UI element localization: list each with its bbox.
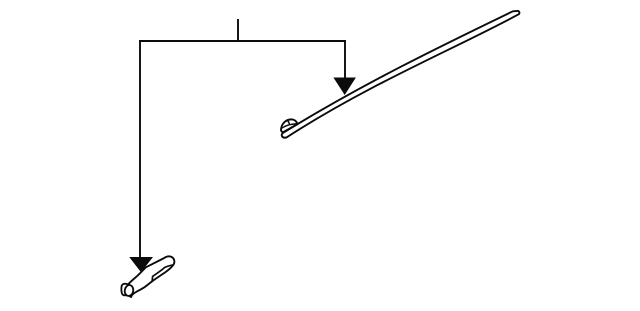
end clip fastener head front face <box>124 284 134 296</box>
molding end cap clip <box>281 119 298 132</box>
molding strip <box>282 11 520 138</box>
left leader wire <box>139 40 141 258</box>
left arrowhead <box>129 257 153 272</box>
right arrowhead <box>333 78 356 96</box>
callout stub wire <box>237 19 239 41</box>
right leader wire <box>344 40 346 79</box>
end clip bevel edge line <box>152 265 173 281</box>
end clip body <box>127 256 174 297</box>
end clip fastener head outer lobe <box>121 284 128 296</box>
callout horizontal wire <box>139 40 346 42</box>
